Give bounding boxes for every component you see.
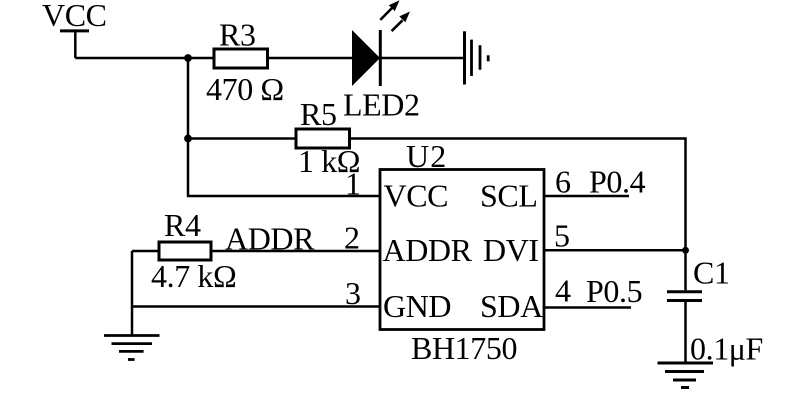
svg-text:P0.5: P0.5 — [586, 273, 642, 309]
svg-text:DVI: DVI — [483, 232, 539, 268]
svg-text:P0.4: P0.4 — [589, 164, 646, 200]
svg-text:LED2: LED2 — [343, 87, 420, 123]
svg-text:R3: R3 — [219, 17, 256, 53]
svg-text:GND: GND — [383, 288, 451, 324]
wire IC pin 6 stub — [544, 195, 629, 198]
wire IC pin 5 to node C — [544, 249, 686, 252]
LED LED2 — [352, 0, 410, 86]
svg-text:R4: R4 — [164, 207, 201, 243]
svg-text:SDA: SDA — [480, 288, 543, 324]
svg-text:0.1μF: 0.1μF — [690, 331, 763, 367]
svg-text:VCC: VCC — [42, 0, 107, 33]
node A junction — [184, 54, 192, 62]
svg-text:470 Ω: 470 Ω — [206, 71, 284, 107]
svg-text:ADDR: ADDR — [383, 232, 473, 268]
IC U2 BH1750 — [380, 170, 544, 330]
wire node A down to node B — [187, 58, 190, 139]
wire node A to R3 — [188, 57, 214, 60]
node C junction — [682, 247, 689, 254]
power symbol VCC — [42, 0, 107, 58]
wire R5 to right bus corner — [350, 139, 686, 251]
resistor R5 — [296, 129, 350, 148]
wire ground riser to IC pin 3 — [132, 305, 380, 308]
wire node B down and to IC pin 1 — [188, 139, 380, 197]
svg-text:SCL: SCL — [480, 178, 538, 214]
ground (earth, left) — [104, 336, 160, 360]
resistor R4 — [159, 242, 211, 260]
svg-text:4: 4 — [555, 273, 571, 309]
svg-text:U2: U2 — [406, 138, 448, 174]
wire VCC to node A — [75, 57, 188, 60]
svg-text:C1: C1 — [693, 255, 730, 291]
svg-text:VCC: VCC — [384, 178, 449, 214]
wire R4 to IC pin 2 — [211, 250, 380, 253]
wire node C to C1 — [684, 250, 687, 290]
svg-text:5: 5 — [554, 218, 570, 254]
wire LED2 cathode to ground — [380, 57, 464, 60]
wire node B to R5 — [188, 137, 296, 140]
wire R3 to LED2 — [268, 57, 354, 60]
svg-text:1: 1 — [345, 166, 361, 202]
resistor R3 — [214, 49, 268, 68]
wire IC pin 4 stub — [544, 306, 631, 309]
wire C1 to ground — [684, 302, 687, 363]
wire ground riser vertical — [131, 251, 134, 336]
svg-text:4.7 kΩ: 4.7 kΩ — [151, 258, 236, 294]
svg-text:R5: R5 — [300, 96, 337, 132]
ground (rotated earth symbol) — [465, 31, 489, 84]
ground (earth, right) — [658, 363, 714, 388]
svg-text:6: 6 — [555, 164, 571, 200]
svg-text:BH1750: BH1750 — [411, 330, 517, 366]
node B junction — [184, 135, 192, 143]
wire ground riser to R4 — [132, 250, 159, 253]
capacitor C1 — [667, 292, 702, 301]
